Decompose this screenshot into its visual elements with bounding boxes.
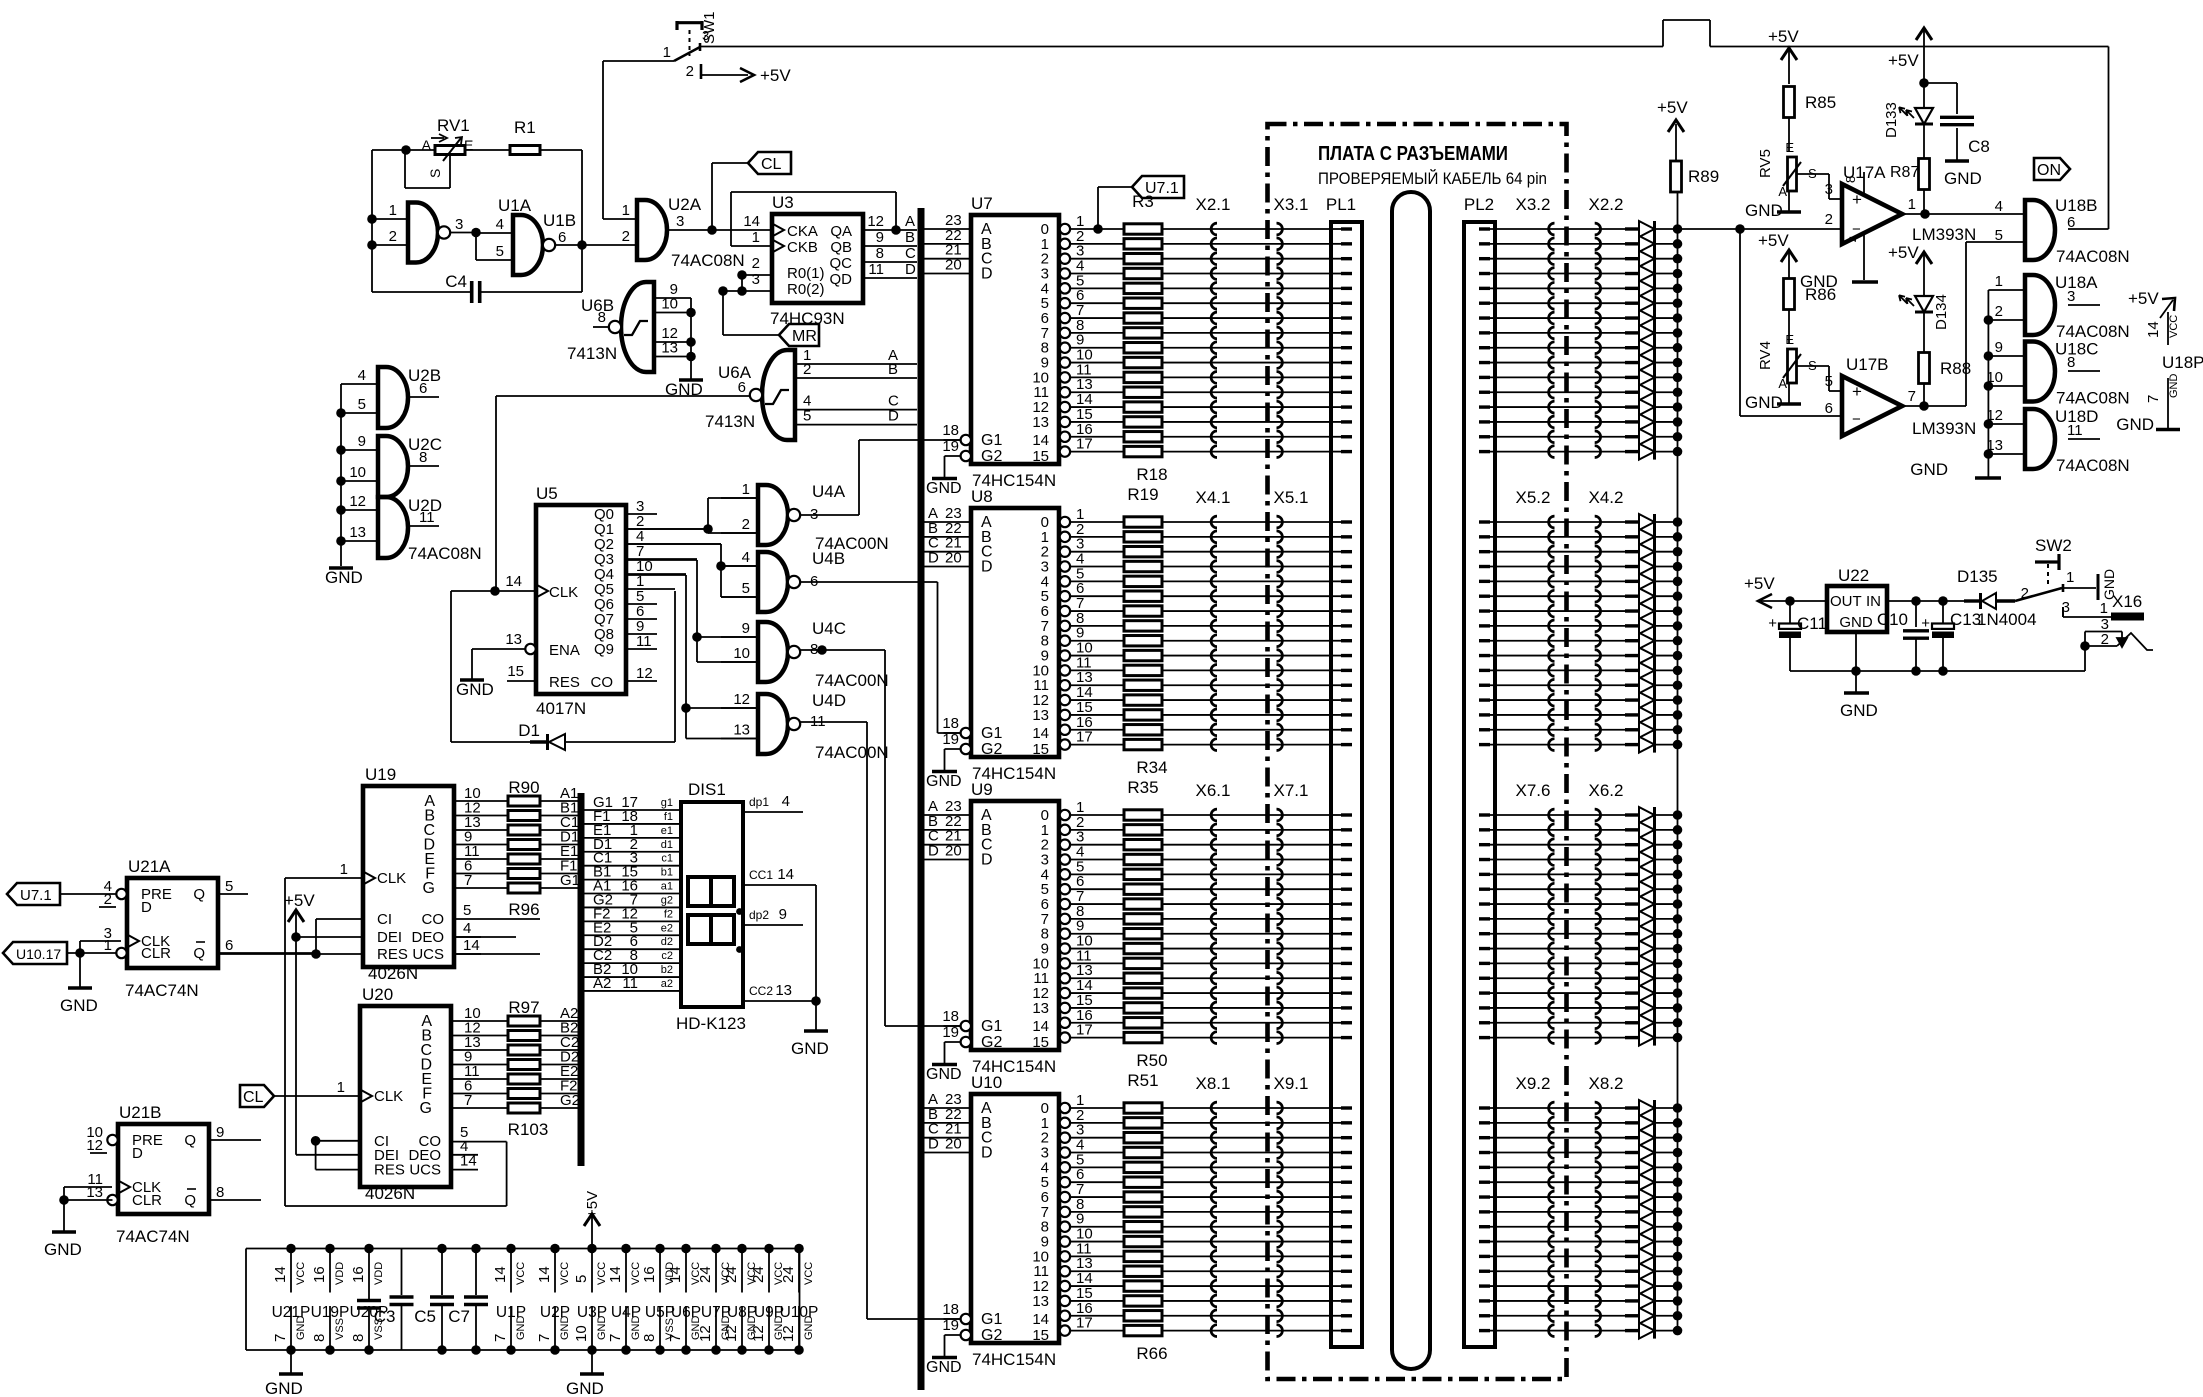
svg-text:G1: G1: [981, 1018, 1002, 1035]
svg-text:+5V: +5V: [1888, 243, 1919, 262]
svg-text:1: 1: [1908, 196, 1916, 213]
svg-text:GND: GND: [1839, 614, 1873, 631]
svg-text:dp2: dp2: [749, 908, 769, 922]
svg-text:5: 5: [225, 878, 233, 895]
svg-text:CL: CL: [761, 156, 782, 173]
svg-text:5: 5: [358, 396, 366, 413]
svg-text:12: 12: [780, 1325, 797, 1342]
svg-text:+: +: [1852, 382, 1862, 401]
svg-text:C11: C11: [1797, 614, 1827, 633]
svg-text:UCS: UCS: [409, 1162, 441, 1179]
svg-text:X2.1: X2.1: [1196, 195, 1231, 214]
svg-text:c1: c1: [661, 853, 673, 865]
svg-text:CKB: CKB: [787, 239, 818, 256]
svg-text:74AC74N: 74AC74N: [125, 981, 199, 1000]
svg-text:Q: Q: [193, 886, 205, 903]
svg-text:G1: G1: [560, 872, 580, 889]
svg-text:13: 13: [1032, 1000, 1049, 1017]
svg-text:U4P: U4P: [611, 1304, 641, 1321]
svg-text:1: 1: [389, 202, 397, 219]
svg-text:3: 3: [2067, 288, 2075, 305]
svg-text:R85: R85: [1805, 93, 1836, 112]
svg-text:2: 2: [389, 228, 397, 245]
svg-text:5: 5: [463, 902, 471, 919]
svg-text:11: 11: [868, 261, 884, 278]
svg-text:GND: GND: [2116, 415, 2154, 434]
svg-text:U6B: U6B: [581, 296, 614, 315]
svg-text:U18A: U18A: [2055, 273, 2098, 292]
svg-text:CLR: CLR: [132, 1192, 162, 1209]
svg-text:9: 9: [779, 906, 787, 923]
svg-text:7: 7: [667, 1334, 684, 1342]
svg-text:3: 3: [676, 213, 684, 230]
svg-text:G2: G2: [981, 448, 1002, 465]
svg-text:8: 8: [1843, 176, 1858, 183]
svg-text:D: D: [928, 1136, 939, 1153]
svg-text:R86: R86: [1805, 285, 1836, 304]
svg-text:U4A: U4A: [812, 482, 846, 501]
svg-text:Q: Q: [193, 945, 205, 962]
svg-text:U18C: U18C: [2055, 340, 2098, 359]
svg-text:G: G: [423, 880, 435, 897]
svg-text:74AC08N: 74AC08N: [2056, 322, 2130, 341]
svg-text:D: D: [928, 550, 939, 567]
svg-text:20: 20: [945, 257, 962, 274]
svg-text:2: 2: [2021, 585, 2029, 602]
svg-text:12: 12: [733, 691, 750, 708]
svg-text:X8.2: X8.2: [1589, 1074, 1624, 1093]
svg-text:D134: D134: [1933, 294, 1950, 330]
svg-text:X4.2: X4.2: [1589, 488, 1624, 507]
svg-text:G2: G2: [981, 1327, 1002, 1344]
svg-text:16: 16: [350, 1266, 367, 1283]
svg-text:+: +: [1852, 190, 1862, 209]
svg-text:ON: ON: [2037, 162, 2061, 179]
svg-text:4: 4: [782, 793, 790, 810]
svg-text:GND: GND: [456, 680, 494, 699]
svg-text:GND: GND: [1840, 701, 1878, 720]
svg-text:X8.1: X8.1: [1196, 1074, 1231, 1093]
svg-text:CKA: CKA: [787, 223, 818, 240]
svg-text:15: 15: [1032, 741, 1049, 758]
svg-text:Q: Q: [184, 1132, 196, 1149]
svg-text:D133: D133: [1883, 102, 1900, 138]
svg-text:4017N: 4017N: [536, 699, 586, 718]
svg-text:7: 7: [492, 1334, 509, 1342]
svg-text:R50: R50: [1136, 1051, 1167, 1070]
svg-text:+5V: +5V: [1744, 574, 1775, 593]
svg-text:15: 15: [507, 663, 524, 680]
svg-text:+5V: +5V: [1768, 27, 1799, 46]
svg-text:4: 4: [742, 549, 750, 566]
svg-text:8: 8: [350, 1334, 367, 1342]
svg-text:U8P: U8P: [727, 1304, 757, 1321]
svg-text:C8: C8: [1968, 137, 1990, 156]
svg-text:U2P: U2P: [540, 1304, 570, 1321]
svg-text:GND: GND: [2168, 374, 2180, 399]
svg-text:12: 12: [867, 213, 884, 230]
svg-text:5: 5: [573, 1275, 590, 1283]
svg-text:R0(2): R0(2): [787, 281, 825, 298]
svg-text:d1: d1: [661, 839, 673, 851]
svg-text:15: 15: [1032, 1034, 1049, 1051]
svg-text:U19P: U19P: [311, 1304, 350, 1321]
svg-text:GND: GND: [265, 1379, 303, 1397]
svg-text:1: 1: [337, 1079, 345, 1096]
svg-text:U6P: U6P: [671, 1304, 701, 1321]
svg-text:+5V: +5V: [760, 66, 791, 85]
svg-text:GND: GND: [566, 1379, 604, 1397]
svg-text:14: 14: [607, 1266, 624, 1283]
svg-text:2: 2: [686, 63, 694, 80]
svg-text:RES: RES: [377, 946, 408, 963]
svg-text:B: B: [888, 361, 898, 378]
svg-text:1: 1: [622, 202, 630, 219]
svg-text:PL2: PL2: [1464, 195, 1494, 214]
svg-text:g1: g1: [661, 797, 673, 809]
svg-text:+5V: +5V: [584, 1191, 601, 1218]
svg-text:U21P: U21P: [272, 1304, 311, 1321]
svg-text:RV4: RV4: [1757, 341, 1774, 370]
svg-text:CLR: CLR: [141, 945, 171, 962]
svg-text:15: 15: [1032, 448, 1049, 465]
svg-text:2: 2: [752, 255, 760, 272]
svg-text:14: 14: [1032, 1311, 1049, 1328]
svg-text:D: D: [905, 261, 916, 278]
svg-text:U7.1: U7.1: [1145, 180, 1179, 197]
svg-text:U19: U19: [365, 765, 396, 784]
svg-text:GND: GND: [926, 480, 962, 497]
svg-text:6: 6: [558, 229, 566, 246]
svg-text:ENA: ENA: [549, 642, 580, 659]
svg-text:OUT: OUT: [1830, 593, 1862, 610]
svg-text:2: 2: [1995, 303, 2003, 320]
svg-text:8: 8: [876, 245, 884, 262]
svg-text:1: 1: [104, 937, 112, 954]
svg-text:a2: a2: [661, 978, 673, 990]
svg-text:8: 8: [641, 1334, 658, 1342]
svg-text:VDD: VDD: [373, 1262, 385, 1285]
svg-text:G1: G1: [981, 432, 1002, 449]
svg-text:20: 20: [945, 550, 962, 567]
svg-text:5: 5: [1995, 227, 2003, 244]
svg-text:D: D: [928, 843, 939, 860]
svg-text:2: 2: [1825, 211, 1833, 228]
svg-text:R19: R19: [1127, 485, 1158, 504]
svg-text:GND: GND: [1745, 201, 1783, 220]
svg-text:e2: e2: [661, 922, 673, 934]
svg-text:14: 14: [492, 1266, 509, 1283]
svg-text:GND: GND: [1745, 393, 1783, 412]
svg-text:4: 4: [496, 216, 504, 233]
svg-text:X6.2: X6.2: [1589, 781, 1624, 800]
svg-text:6: 6: [1825, 400, 1833, 417]
svg-text:R87: R87: [1890, 164, 1919, 181]
svg-text:D: D: [981, 852, 993, 869]
svg-text:13: 13: [505, 631, 522, 648]
svg-text:R66: R66: [1136, 1344, 1167, 1363]
svg-text:CL: CL: [243, 1089, 264, 1106]
svg-text:d2: d2: [661, 936, 673, 948]
svg-text:VCC: VCC: [295, 1262, 307, 1285]
svg-text:U2A: U2A: [668, 195, 702, 214]
svg-text:U1B: U1B: [543, 211, 576, 230]
svg-text:13: 13: [349, 524, 366, 541]
svg-text:D: D: [132, 1145, 143, 1162]
svg-text:UCS: UCS: [412, 946, 444, 963]
svg-text:6: 6: [419, 380, 427, 397]
svg-text:1: 1: [663, 44, 671, 61]
svg-text:X3.1: X3.1: [1274, 195, 1309, 214]
svg-text:7: 7: [536, 1334, 553, 1342]
svg-text:CLK: CLK: [549, 584, 578, 601]
svg-text:+: +: [1768, 615, 1777, 632]
svg-text:G: G: [420, 1100, 432, 1117]
svg-text:4: 4: [463, 920, 471, 937]
svg-text:G2: G2: [981, 1034, 1002, 1051]
svg-text:HD-K123: HD-K123: [676, 1014, 746, 1033]
svg-text:1: 1: [2100, 600, 2108, 617]
svg-text:8: 8: [311, 1334, 328, 1342]
svg-text:7: 7: [1908, 388, 1916, 405]
svg-text:VCC: VCC: [515, 1262, 527, 1285]
svg-text:QD: QD: [830, 271, 853, 288]
svg-text:3: 3: [752, 271, 760, 288]
svg-text:1: 1: [340, 861, 348, 878]
svg-text:14: 14: [1032, 432, 1049, 449]
svg-text:R0(1): R0(1): [787, 265, 825, 282]
svg-text:QC: QC: [830, 255, 853, 272]
svg-text:X5.1: X5.1: [1274, 488, 1309, 507]
svg-text:DEO: DEO: [411, 929, 444, 946]
svg-text:S: S: [427, 169, 443, 178]
svg-text:18: 18: [942, 715, 959, 732]
svg-text:2: 2: [622, 228, 630, 245]
svg-text:13: 13: [733, 722, 750, 739]
svg-text:U3P: U3P: [577, 1304, 607, 1321]
svg-text:U18B: U18B: [2055, 196, 2098, 215]
svg-text:13: 13: [661, 340, 678, 357]
svg-text:4: 4: [1995, 198, 2003, 215]
svg-text:PL1: PL1: [1326, 195, 1356, 214]
svg-text:15: 15: [1032, 1327, 1049, 1344]
svg-text:+5V: +5V: [1657, 98, 1688, 117]
svg-text:14: 14: [272, 1266, 289, 1283]
svg-text:Q: Q: [184, 1192, 196, 1209]
svg-text:D: D: [981, 1145, 993, 1162]
svg-text:R89: R89: [1688, 167, 1719, 186]
svg-text:D: D: [141, 899, 152, 916]
svg-text:24: 24: [723, 1266, 740, 1283]
svg-text:VCC: VCC: [2168, 315, 2180, 338]
svg-text:U10.17: U10.17: [16, 946, 61, 962]
svg-text:U21A: U21A: [128, 857, 171, 876]
svg-text:7: 7: [464, 1092, 472, 1109]
svg-text:GND: GND: [926, 1066, 962, 1083]
svg-text:SW2: SW2: [2035, 536, 2072, 555]
svg-text:10: 10: [349, 464, 366, 481]
svg-text:QB: QB: [830, 239, 852, 256]
svg-text:12: 12: [723, 1325, 740, 1342]
svg-text:U17B: U17B: [1846, 355, 1889, 374]
svg-text:12: 12: [750, 1325, 767, 1342]
svg-text:G1: G1: [981, 725, 1002, 742]
svg-text:U5: U5: [536, 484, 558, 503]
svg-text:74AC08N: 74AC08N: [671, 251, 745, 270]
svg-text:X7.6: X7.6: [1516, 781, 1551, 800]
svg-text:f2: f2: [664, 908, 673, 920]
svg-text:D: D: [981, 266, 993, 283]
svg-text:RES: RES: [374, 1162, 405, 1179]
svg-text:a1: a1: [661, 881, 673, 893]
svg-text:U10P: U10P: [780, 1304, 819, 1321]
svg-text:+5V: +5V: [1758, 231, 1789, 250]
svg-text:DIS1: DIS1: [688, 780, 726, 799]
svg-text:X5.2: X5.2: [1516, 488, 1551, 507]
svg-text:RV5: RV5: [1757, 149, 1774, 178]
svg-text:8: 8: [2067, 354, 2075, 371]
svg-text:24: 24: [750, 1266, 767, 1283]
svg-text:74AC08N: 74AC08N: [2056, 456, 2130, 475]
svg-text:6: 6: [225, 937, 233, 954]
svg-text:C10: C10: [1877, 610, 1908, 629]
svg-text:17: 17: [1076, 1022, 1093, 1039]
svg-text:7: 7: [272, 1334, 289, 1342]
svg-text:14: 14: [1032, 725, 1049, 742]
svg-text:VCC: VCC: [803, 1262, 815, 1285]
svg-text:3: 3: [702, 28, 709, 43]
svg-text:U4C: U4C: [812, 619, 846, 638]
svg-text:X6.1: X6.1: [1196, 781, 1231, 800]
svg-text:13: 13: [775, 982, 792, 999]
svg-text:12: 12: [636, 665, 653, 682]
svg-text:G1: G1: [981, 1311, 1002, 1328]
svg-text:C3: C3: [374, 1307, 396, 1326]
svg-text:14: 14: [463, 937, 480, 954]
svg-text:16: 16: [641, 1266, 658, 1283]
svg-text:1: 1: [752, 229, 760, 246]
svg-text:14: 14: [667, 1266, 684, 1283]
svg-text:U10: U10: [971, 1073, 1002, 1092]
svg-text:17: 17: [1076, 436, 1093, 453]
svg-text:4: 4: [358, 367, 366, 384]
svg-text:b2: b2: [661, 964, 673, 976]
svg-text:74AC08N: 74AC08N: [2056, 247, 2130, 266]
svg-text:GND: GND: [926, 773, 962, 790]
svg-text:7: 7: [2145, 395, 2162, 403]
svg-text:17: 17: [1076, 1315, 1093, 1332]
svg-text:11: 11: [2067, 422, 2083, 439]
svg-text:8: 8: [419, 449, 427, 466]
svg-text:U22: U22: [1838, 566, 1869, 585]
svg-text:U6A: U6A: [718, 363, 752, 382]
svg-text:16: 16: [311, 1266, 328, 1283]
svg-text:DEI: DEI: [377, 929, 402, 946]
svg-text:5: 5: [803, 408, 811, 425]
svg-text:e1: e1: [661, 825, 673, 837]
svg-text:12: 12: [349, 493, 366, 510]
svg-text:11: 11: [636, 633, 652, 650]
svg-text:U1A: U1A: [498, 196, 532, 215]
svg-text:4026N: 4026N: [368, 964, 418, 983]
svg-text:GND: GND: [1910, 460, 1948, 479]
svg-text:10: 10: [733, 645, 750, 662]
svg-text:14: 14: [743, 213, 760, 230]
svg-text:B: B: [905, 229, 915, 246]
svg-text:14: 14: [2145, 321, 2162, 338]
svg-text:U4B: U4B: [812, 549, 845, 568]
svg-text:CLK: CLK: [374, 1088, 403, 1105]
svg-text:1: 1: [742, 481, 750, 498]
svg-text:X7.1: X7.1: [1274, 781, 1309, 800]
svg-text:R103: R103: [508, 1120, 549, 1139]
svg-text:1N4004: 1N4004: [1977, 610, 2037, 629]
svg-text:CI: CI: [377, 911, 392, 928]
svg-text:2: 2: [803, 361, 811, 378]
svg-text:+5V: +5V: [284, 891, 315, 910]
svg-text:ПРОВЕРЯЕМЫЙ КАБЕЛЬ 64 pin: ПРОВЕРЯЕМЫЙ КАБЕЛЬ 64 pin: [1318, 169, 1547, 188]
svg-text:9: 9: [216, 1124, 224, 1141]
svg-text:7413N: 7413N: [705, 412, 755, 431]
svg-text:D: D: [888, 408, 899, 425]
svg-text:13: 13: [1032, 414, 1049, 431]
svg-text:74AC08N: 74AC08N: [408, 544, 482, 563]
svg-text:ПЛАТА С РАЗЪЕМАМИ: ПЛАТА С РАЗЪЕМАМИ: [1318, 143, 1508, 165]
svg-text:X9.1: X9.1: [1274, 1074, 1309, 1093]
svg-text:G2: G2: [981, 741, 1002, 758]
svg-text:R34: R34: [1136, 758, 1167, 777]
svg-text:X3.2: X3.2: [1516, 195, 1551, 214]
svg-text:U1P: U1P: [496, 1304, 526, 1321]
svg-text:C: C: [905, 245, 916, 262]
svg-text:D135: D135: [1957, 567, 1998, 586]
svg-text:X9.2: X9.2: [1516, 1074, 1551, 1093]
svg-text:GND: GND: [60, 996, 98, 1015]
svg-text:U8: U8: [971, 487, 993, 506]
svg-text:Q9: Q9: [594, 641, 614, 658]
svg-text:dp1: dp1: [749, 795, 769, 809]
svg-text:2: 2: [742, 516, 750, 533]
svg-text:U7.1: U7.1: [20, 887, 52, 904]
svg-text:C5: C5: [414, 1307, 436, 1326]
svg-text:4026N: 4026N: [365, 1184, 415, 1203]
svg-text:74HC154N: 74HC154N: [972, 1350, 1056, 1369]
svg-text:5: 5: [496, 243, 504, 260]
svg-text:GND: GND: [44, 1240, 82, 1259]
svg-text:R51: R51: [1127, 1071, 1158, 1090]
svg-text:R1: R1: [514, 118, 536, 137]
svg-text:24: 24: [780, 1266, 797, 1283]
svg-text:U21B: U21B: [119, 1103, 162, 1122]
svg-text:+5V: +5V: [2128, 289, 2159, 308]
svg-text:74AC00N: 74AC00N: [815, 743, 889, 762]
svg-text:20: 20: [945, 1136, 962, 1153]
svg-text:7: 7: [607, 1334, 624, 1342]
svg-text:LM393N: LM393N: [1912, 419, 1976, 438]
svg-text:E: E: [1785, 332, 1794, 347]
svg-text:17: 17: [1076, 729, 1093, 746]
svg-text:+5V: +5V: [1888, 51, 1919, 70]
svg-text:−: −: [1852, 411, 1861, 428]
svg-text:MR: MR: [792, 328, 817, 345]
svg-text:CO: CO: [591, 674, 614, 691]
svg-text:5: 5: [742, 580, 750, 597]
svg-text:R96: R96: [508, 900, 539, 919]
svg-text:A: A: [905, 213, 915, 230]
svg-text:D: D: [981, 559, 993, 576]
svg-text:C4: C4: [445, 272, 467, 291]
svg-text:7: 7: [464, 872, 472, 889]
